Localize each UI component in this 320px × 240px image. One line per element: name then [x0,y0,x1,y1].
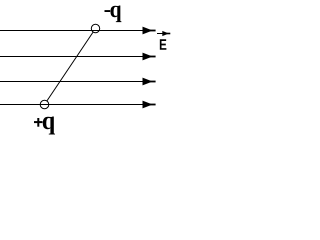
field line 3 [0,81,146,83]
field line 4 arrowhead [143,101,153,109]
label E [160,39,167,49]
label +q : plus sign horizontal bar [34,121,43,123]
vector E arrowhead [162,31,169,36]
field line 4 [0,104,146,106]
field line 1 [0,30,146,32]
field line 1 arrowhead [143,27,153,35]
label +q : q [43,116,55,134]
label -q : q [110,5,121,22]
wire: dipole axis connecting -q and +q [45,29,96,105]
charge -q (open circle) [91,24,99,32]
field line 2 [0,56,146,58]
field line 3 arrowhead [143,78,153,86]
vector E arrow shaft [157,33,167,35]
label +q : plus sign vertical bar [37,118,39,127]
label -q : minus sign [105,10,111,12]
field line 2 arrowhead [143,53,153,61]
charge +q (open circle) [40,100,49,109]
